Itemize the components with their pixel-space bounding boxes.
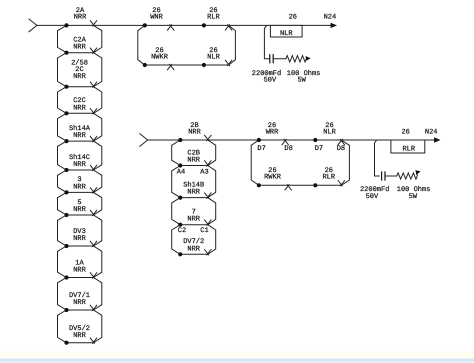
svg-text:NRR: NRR [73, 161, 86, 169]
svg-text:A3: A3 [200, 168, 208, 176]
svg-text:NRR: NRR [73, 332, 86, 340]
svg-text:NRR: NRR [73, 235, 86, 243]
svg-text:5W: 5W [297, 76, 306, 84]
svg-text:NWKR: NWKR [151, 54, 169, 62]
svg-text:RLR: RLR [402, 146, 415, 154]
svg-text:NRR: NRR [73, 104, 86, 112]
svg-text:NRR: NRR [73, 73, 86, 81]
svg-text:D8: D8 [284, 145, 292, 153]
svg-text:RLR: RLR [322, 174, 335, 182]
svg-text:NRR: NRR [74, 14, 87, 22]
svg-text:A4: A4 [177, 168, 185, 176]
svg-text:NRR: NRR [73, 44, 86, 52]
svg-text:NRR: NRR [187, 157, 200, 165]
svg-text:NRR: NRR [187, 189, 200, 197]
svg-text:26: 26 [401, 128, 409, 136]
svg-text:RLR: RLR [207, 14, 220, 22]
svg-text:NRR: NRR [187, 245, 200, 253]
svg-text:N24: N24 [324, 14, 337, 22]
svg-text:NRR: NRR [73, 132, 86, 140]
svg-text:NLR: NLR [323, 128, 336, 136]
svg-text:NRR: NRR [73, 267, 86, 275]
svg-text:NRR: NRR [187, 216, 200, 224]
svg-text:NLR: NLR [207, 54, 220, 62]
svg-text:26: 26 [289, 14, 297, 22]
svg-text:C2: C2 [178, 227, 186, 235]
svg-text:NRR: NRR [73, 206, 86, 214]
svg-text:RWKR: RWKR [264, 174, 282, 182]
svg-text:50V: 50V [366, 193, 379, 201]
svg-text:D7: D7 [257, 145, 265, 153]
svg-text:N24: N24 [425, 128, 438, 136]
svg-text:C1: C1 [200, 227, 208, 235]
svg-text:5W: 5W [409, 193, 418, 201]
svg-text:NLR: NLR [280, 30, 293, 38]
svg-text:WRR: WRR [266, 128, 279, 136]
svg-text:WNR: WNR [150, 14, 163, 22]
svg-text:NRR: NRR [188, 129, 201, 137]
svg-text:50V: 50V [264, 76, 277, 84]
svg-text:NRR: NRR [73, 183, 86, 191]
svg-text:D8: D8 [337, 145, 345, 153]
svg-text:D7: D7 [315, 145, 323, 153]
svg-text:NRR: NRR [73, 299, 86, 307]
